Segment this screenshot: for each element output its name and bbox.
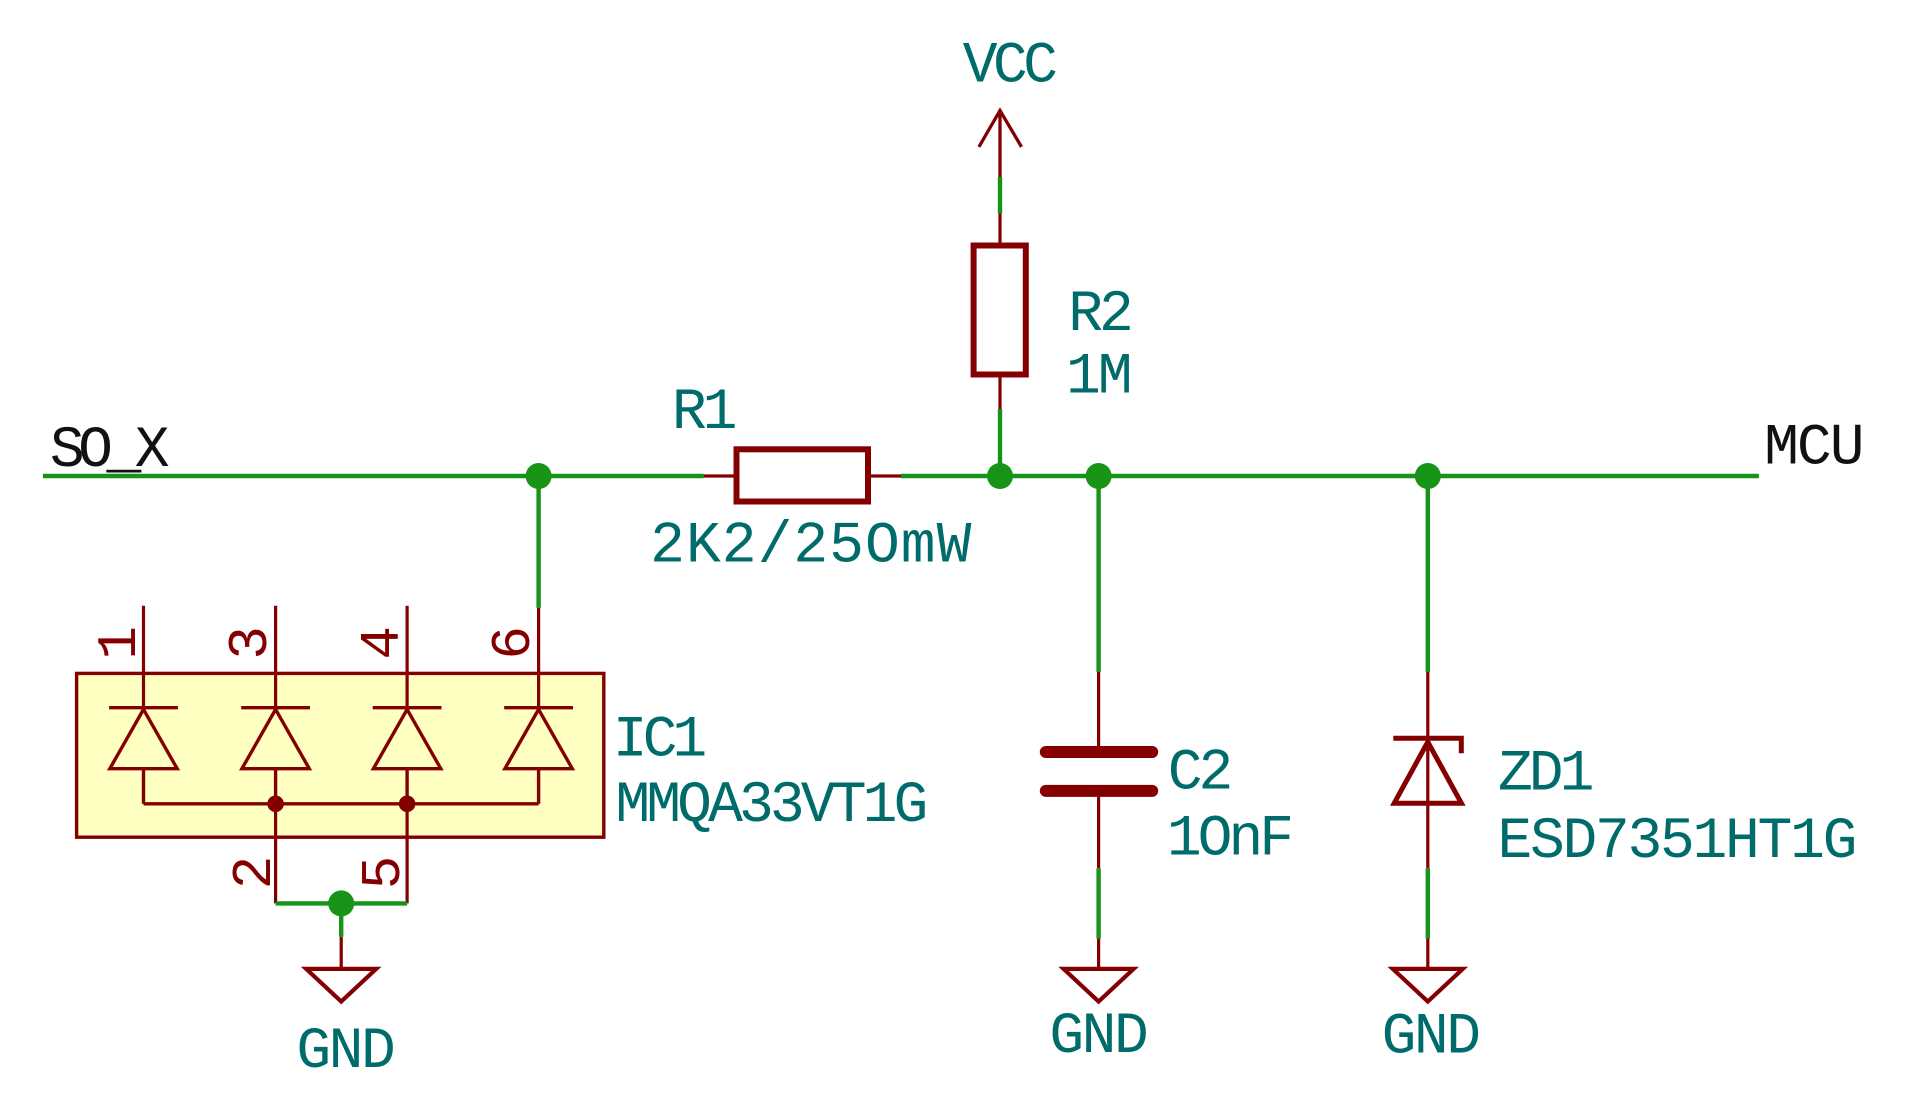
svg-text:R1: R1 [672,381,735,446]
svg-text:ESD7351HT1G: ESD7351HT1G [1498,810,1856,875]
ground pin below ZD1 [1426,939,1429,968]
svg-text:6: 6 [482,626,546,660]
zener ZD1 triangle [1394,742,1461,803]
ground symbol below C2 [1064,969,1134,1002]
ground symbol below IC1 [306,969,376,1002]
capacitor C2 pin top [1097,672,1100,746]
ground pin below IC1 [340,937,343,968]
ground pin below C2 [1097,939,1100,968]
svg-text:GND: GND [1049,1005,1146,1070]
resistor R2 pin top [998,213,1001,242]
IC1 internal junction left [267,796,284,813]
wire VCC to R2 [998,177,1002,213]
svg-text:4: 4 [351,626,415,660]
wire: main horizontal net S0_X - MCU [43,474,704,478]
wire net to IC1 pin 6 [536,476,540,608]
ground symbol below ZD1 [1393,969,1463,1002]
wire net to C2 [1096,476,1100,672]
svg-text:5: 5 [352,856,416,890]
junction at ZD1 branch [1415,463,1441,489]
resistor R1 body [737,449,869,501]
wire C2 to GND [1096,868,1100,938]
wire ZD1 to GND [1426,868,1430,938]
wire IC1 pins 2-5 [276,901,408,905]
capacitor C2 pin bottom [1097,797,1100,869]
svg-text:2: 2 [223,856,287,890]
IC1 internal junction right [399,796,416,813]
IC1 pin 5 [406,804,409,904]
junction below IC1 [328,890,354,916]
IC1 internal bus [144,802,539,805]
wire junction to GND [339,903,343,936]
wire R2 to net [998,409,1002,476]
svg-text:ZD1: ZD1 [1498,743,1592,808]
power symbol VCC arrow [979,111,1022,178]
resistor R1 pin left [704,474,734,477]
IC1 body box [77,673,604,837]
IC1 pin 3 [274,606,277,710]
resistor R2 pin bottom [998,378,1001,410]
junction at R2 branch [987,463,1013,489]
junction at IC1 branch [526,463,552,489]
svg-text:1OnF: 1OnF [1167,808,1290,873]
wire net to ZD1 [1426,476,1430,672]
svg-text:3: 3 [219,626,283,660]
capacitor C2 plate top [1046,746,1152,758]
svg-text:IC1: IC1 [613,709,705,774]
svg-text:1M: 1M [1066,345,1130,410]
svg-text:SO_X: SO_X [50,419,169,484]
diode D1 in IC1 [109,708,178,804]
IC1 pin 2 [274,804,277,904]
zener ZD1 cathode bar with hook [1393,738,1461,753]
IC1 pin 6 [537,608,540,710]
svg-text:1: 1 [88,626,152,660]
resistor R1 pin right [871,474,901,477]
resistor R2 body [974,246,1026,375]
junction at C2 branch [1086,463,1112,489]
svg-text:GND: GND [1382,1006,1479,1071]
svg-text:MMQA33VT1G: MMQA33VT1G [615,774,925,839]
svg-text:R2: R2 [1068,283,1130,348]
svg-text:MCU: MCU [1764,417,1862,482]
svg-text:VCC: VCC [963,34,1056,99]
diode D2 in IC1 [241,708,310,804]
capacitor C2 plate bottom [1046,785,1152,797]
diode D3 in IC1 [373,708,442,804]
svg-text:C2: C2 [1168,742,1230,807]
IC1 pin 1 [142,606,145,710]
IC1 pin 4 [406,606,409,710]
svg-text:2K2/25OmW: 2K2/25OmW [650,515,972,580]
svg-text:GND: GND [296,1020,393,1085]
zener ZD1 pin through [1426,672,1429,868]
diode D4 in IC1 [504,708,573,804]
